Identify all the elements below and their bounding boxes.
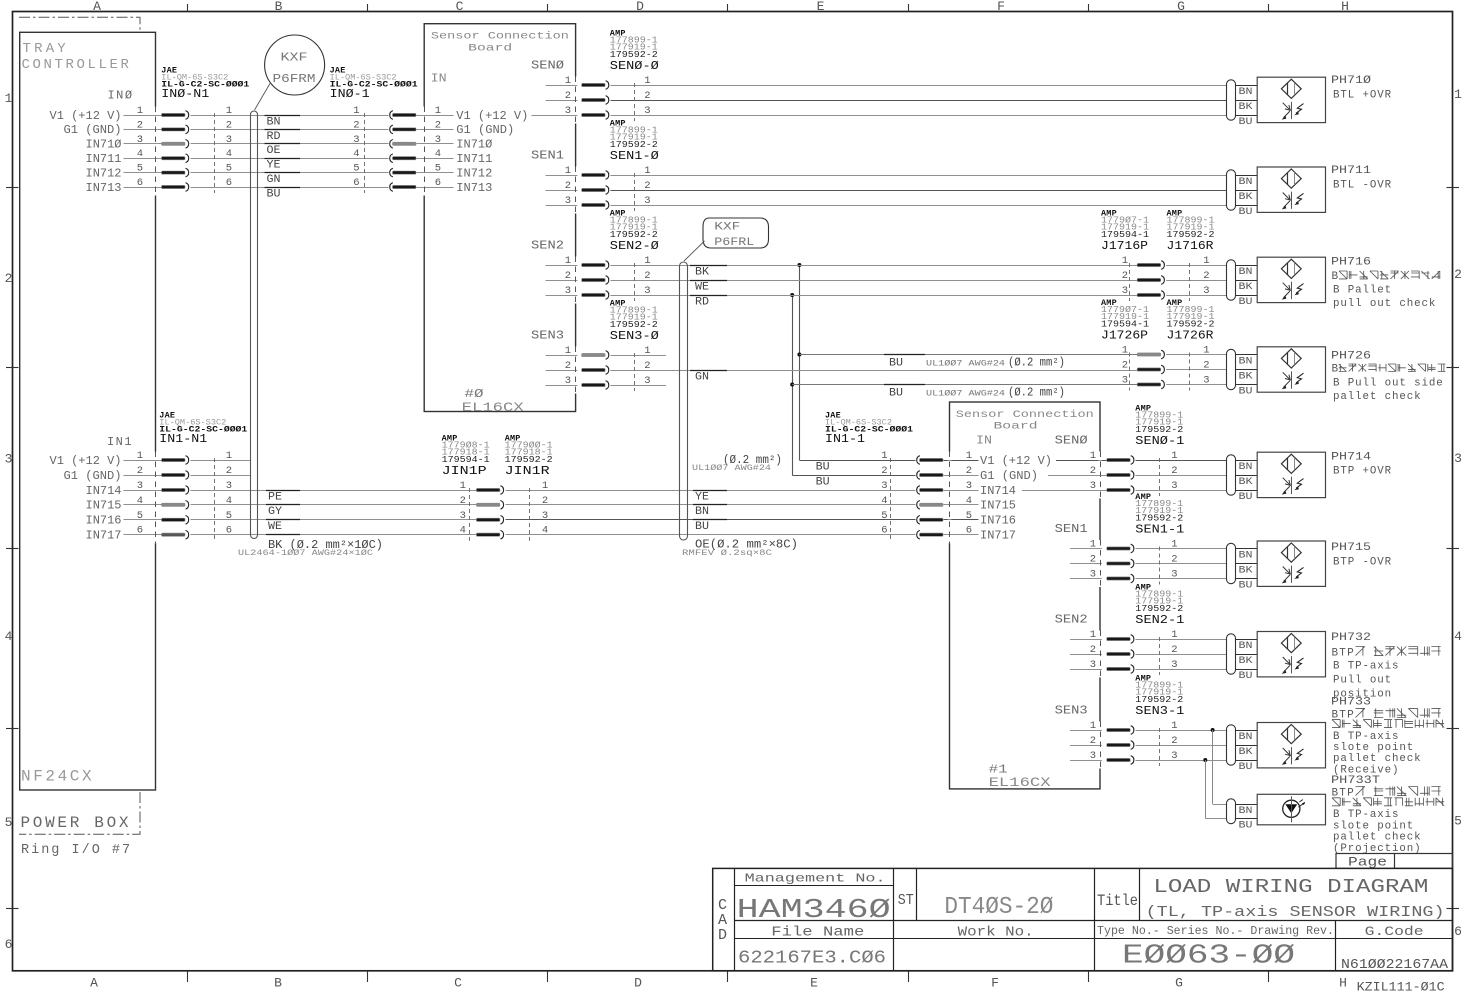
svg-text:BN: BN — [1239, 806, 1253, 817]
contact SEN2-1 pin 2 — [1070, 654, 1100, 656]
svg-text:3: 3 — [1090, 569, 1096, 581]
svg-text:BU: BU — [816, 461, 830, 473]
svg-text:DT4ØS-2Ø: DT4ØS-2Ø — [944, 894, 1053, 921]
svg-text:2: 2 — [1454, 267, 1462, 282]
wire color label YE — [265, 158, 301, 160]
svg-text:1: 1 — [1203, 345, 1209, 357]
svg-text:4: 4 — [460, 525, 466, 537]
svg-text:6: 6 — [137, 525, 143, 537]
svg-text:4: 4 — [137, 148, 143, 160]
svg-text:PH711: PH711 — [1331, 165, 1371, 177]
svg-text:1: 1 — [1090, 629, 1096, 641]
svg-text:D: D — [718, 927, 727, 944]
svg-text:D: D — [636, 0, 644, 14]
cable marker for PH732 — [1227, 634, 1236, 674]
svg-text:IN713: IN713 — [456, 181, 492, 195]
svg-text:4: 4 — [542, 525, 548, 537]
svg-text:1: 1 — [1171, 629, 1177, 641]
svg-text:SEN1-1: SEN1-1 — [1135, 523, 1184, 537]
svg-text:WE: WE — [695, 281, 709, 293]
wire BN into PH733T — [1236, 804, 1258, 806]
TRAY CONTROLLER box — [20, 32, 156, 790]
branch wires to PH733T — [1211, 728, 1215, 732]
svg-text:2: 2 — [644, 360, 650, 372]
svg-text:B TP-axis: B TP-axis — [1333, 661, 1399, 673]
svg-text:IN713: IN713 — [86, 181, 122, 195]
svg-text:BU: BU — [816, 476, 830, 488]
title block — [713, 868, 1453, 970]
svg-text:1: 1 — [1171, 539, 1177, 551]
svg-text:3: 3 — [1203, 285, 1209, 297]
svg-text:B: B — [1332, 647, 1339, 659]
wire BU into PH710 — [1236, 115, 1258, 117]
svg-text:SENØ: SENØ — [1055, 435, 1088, 448]
svg-text:OE: OE — [267, 145, 281, 157]
svg-text:3: 3 — [565, 105, 571, 117]
svg-text:3: 3 — [1090, 659, 1096, 671]
svg-text:2: 2 — [460, 495, 466, 507]
contact SEN1-1 pin 3 — [1070, 578, 1100, 580]
contact SEN1-1 pin 1 — [1070, 548, 1100, 550]
wire V1 inside SCB#0 — [424, 115, 453, 117]
svg-text:1: 1 — [644, 165, 650, 177]
svg-text:BK: BK — [1239, 102, 1253, 113]
svg-text:IN715: IN715 — [86, 499, 122, 513]
svg-text:G1 (GND): G1 (GND) — [980, 469, 1038, 483]
svg-text:V1 (+12 V): V1 (+12 V) — [456, 109, 528, 123]
svg-text:IN717: IN717 — [980, 529, 1016, 543]
svg-text:2: 2 — [542, 495, 548, 507]
cable wire color labels YE BN BU — [693, 490, 727, 492]
wire BK into PH733 — [1236, 745, 1258, 747]
Sensor Connection Board #1 box — [950, 402, 1101, 789]
svg-text:B TP-axis: B TP-axis — [1333, 731, 1399, 743]
wire BU into PH732 — [1236, 669, 1258, 671]
svg-text:PE: PE — [268, 491, 282, 503]
wire BN into PH732 — [1236, 639, 1258, 641]
svg-text:G1 (GND): G1 (GND) — [456, 123, 514, 137]
svg-text:B: B — [274, 976, 282, 991]
svg-text:E: E — [810, 976, 818, 991]
svg-text:1: 1 — [644, 345, 650, 357]
svg-text:2: 2 — [353, 119, 359, 131]
svg-text:2: 2 — [226, 119, 232, 131]
svg-text:6: 6 — [137, 177, 143, 189]
svg-text:PH726: PH726 — [1331, 351, 1371, 363]
svg-text:P6FRL: P6FRL — [714, 237, 754, 249]
svg-text:Work No.: Work No. — [958, 926, 1034, 941]
svg-text:6: 6 — [353, 177, 359, 189]
svg-text:1: 1 — [1171, 450, 1177, 462]
balloon KXF P6FRL — [703, 218, 769, 248]
svg-text:Sensor Connection: Sensor Connection — [956, 409, 1094, 421]
wire BK into PH726 — [1236, 369, 1258, 371]
svg-text:G1 (GND): G1 (GND) — [64, 469, 122, 483]
svg-text:2: 2 — [5, 271, 13, 286]
wire BN into PH714 — [1236, 460, 1258, 462]
svg-text:4: 4 — [881, 495, 887, 507]
svg-text:IN715: IN715 — [980, 499, 1016, 513]
svg-text:2: 2 — [565, 360, 571, 372]
contact SEN0-0 pin 1 — [546, 85, 576, 87]
svg-text:3: 3 — [644, 105, 650, 117]
svg-text:4: 4 — [5, 629, 13, 644]
balloon KXF P6FRM — [265, 35, 325, 95]
svg-text:C: C — [456, 0, 464, 14]
svg-text:slote point: slote point — [1333, 742, 1414, 754]
svg-text:3: 3 — [1090, 750, 1096, 762]
wire BU to J1726 pin3 — [792, 384, 1137, 386]
SEN2 cable wire color labels BK WE RD — [690, 265, 727, 267]
svg-text:2: 2 — [644, 180, 650, 192]
svg-text:1: 1 — [1454, 87, 1462, 102]
cable sheath KXF P6FRM — [251, 111, 258, 539]
svg-text:BU: BU — [695, 521, 709, 533]
svg-text:N61ØØ22167AA: N61ØØ22167AA — [1341, 957, 1449, 973]
cable label BK 0.2mm2 x10C — [266, 534, 300, 536]
svg-text:D: D — [634, 976, 642, 991]
contact SEN2-0 pin 1 — [546, 265, 576, 267]
svg-text:BU: BU — [889, 358, 903, 370]
svg-text:1: 1 — [644, 75, 650, 87]
contact SEN3-0 pin 3 — [546, 385, 576, 387]
svg-text:(Ø.2 mm²): (Ø.2 mm²) — [1008, 357, 1065, 370]
svg-text:BU: BU — [1239, 297, 1253, 308]
svg-text:A: A — [90, 976, 98, 991]
svg-text:BN: BN — [1239, 177, 1253, 188]
svg-text:3: 3 — [1122, 375, 1128, 387]
wire BU into PH733T — [1236, 818, 1258, 820]
svg-text:BK: BK — [1239, 192, 1253, 203]
svg-text:1: 1 — [137, 450, 143, 462]
wire BK into PH715 — [1236, 563, 1258, 565]
svg-text:H: H — [1339, 976, 1347, 991]
svg-text:GN: GN — [267, 174, 281, 186]
svg-text:6: 6 — [881, 525, 887, 537]
svg-text:B: B — [1332, 271, 1339, 283]
svg-text:YE: YE — [695, 491, 709, 503]
svg-text:UL1ØØ7 AWG#24: UL1ØØ7 AWG#24 — [692, 463, 771, 473]
svg-text:SEN2: SEN2 — [1055, 614, 1088, 627]
svg-text:BN: BN — [1239, 732, 1253, 743]
svg-text:GN: GN — [695, 371, 709, 383]
junction dots — [797, 263, 801, 267]
contact SEN3-0 pin 1 — [546, 355, 576, 357]
svg-text:B Pallet: B Pallet — [1333, 284, 1392, 296]
wire vertical BK branch — [799, 265, 801, 460]
svg-text:B TP-axis: B TP-axis — [1333, 809, 1399, 821]
svg-text:G.Code: G.Code — [1365, 924, 1424, 939]
svg-text:SEN1: SEN1 — [531, 150, 564, 163]
svg-text:NF24CX: NF24CX — [21, 768, 94, 786]
photo sensor PH732 — [1257, 632, 1325, 677]
svg-text:KXF: KXF — [281, 52, 308, 65]
photo sensor PH710 — [1257, 77, 1325, 122]
svg-text:4: 4 — [353, 148, 359, 160]
svg-text:EØØ63-ØØ: EØØ63-ØØ — [1122, 942, 1295, 972]
svg-text:V1 (+12 V): V1 (+12 V) — [50, 109, 122, 123]
svg-text:3: 3 — [1171, 659, 1177, 671]
row tick marks — [6, 187, 19, 189]
svg-text:6: 6 — [226, 177, 232, 189]
svg-text:1: 1 — [565, 75, 571, 87]
svg-text:BN: BN — [267, 116, 281, 128]
svg-text:2: 2 — [1171, 465, 1177, 477]
svg-text:3: 3 — [565, 195, 571, 207]
svg-text:1: 1 — [137, 105, 143, 117]
svg-text:5: 5 — [5, 815, 13, 830]
svg-text:6: 6 — [226, 525, 232, 537]
POWER BOX dash-dot outline — [19, 792, 140, 834]
svg-text:3: 3 — [1090, 480, 1096, 492]
svg-text:BU: BU — [1239, 671, 1253, 682]
contact SEN3-1 pin 1 — [1070, 730, 1100, 732]
svg-text:SEN3: SEN3 — [1055, 705, 1088, 718]
svg-text:BTL -OVR: BTL -OVR — [1333, 180, 1392, 192]
svg-text:BTP -OVR: BTP -OVR — [1333, 557, 1392, 569]
connector housing dashes JIN1 — [469, 488, 471, 541]
wire BU to J1726 pin1 — [799, 354, 1137, 356]
svg-text:G1 (GND): G1 (GND) — [64, 123, 122, 137]
svg-text:P6FRM: P6FRM — [273, 73, 316, 86]
svg-text:3: 3 — [226, 480, 232, 492]
svg-text:SEN3-Ø: SEN3-Ø — [610, 329, 659, 343]
svg-text:3: 3 — [1171, 480, 1177, 492]
svg-text:IN711: IN711 — [456, 152, 492, 166]
contact SEN2-1 pin 3 — [1070, 669, 1100, 671]
svg-text:IN1-1: IN1-1 — [825, 432, 865, 446]
svg-text:SENØ: SENØ — [531, 60, 564, 73]
svg-text:1: 1 — [565, 345, 571, 357]
svg-text:1: 1 — [226, 450, 232, 462]
svg-text:IN71Ø: IN71Ø — [456, 138, 492, 152]
cable wire color labels PE GY WE — [266, 490, 300, 492]
svg-text:LOAD WIRING DIAGRAM: LOAD WIRING DIAGRAM — [1153, 876, 1428, 898]
svg-text:1: 1 — [565, 165, 571, 177]
svg-text:5: 5 — [137, 163, 143, 175]
svg-text:2: 2 — [226, 465, 232, 477]
wire BN into PH716 — [1236, 265, 1258, 267]
svg-text:RD: RD — [695, 296, 709, 308]
svg-text:JIN1P: JIN1P — [442, 464, 487, 478]
svg-text:PH732: PH732 — [1331, 632, 1371, 644]
svg-text:IN711: IN711 — [86, 152, 122, 166]
svg-text:IN717: IN717 — [86, 529, 122, 543]
svg-text:3: 3 — [881, 480, 887, 492]
svg-text:IN716: IN716 — [980, 514, 1016, 528]
contact SEN1-0 pin 1 — [546, 175, 576, 177]
svg-text:1: 1 — [565, 255, 571, 267]
svg-text:INØ-N1: INØ-N1 — [161, 87, 209, 101]
contact SEN3-1 pin 2 — [1070, 745, 1100, 747]
svg-text:2: 2 — [137, 119, 143, 131]
svg-text:G: G — [1177, 0, 1185, 14]
svg-text:BN: BN — [1239, 267, 1253, 278]
svg-text:2: 2 — [1171, 735, 1177, 747]
svg-text:T: T — [1339, 647, 1346, 659]
svg-text:IN1-N1: IN1-N1 — [159, 432, 207, 446]
svg-text:5: 5 — [226, 510, 232, 522]
svg-text:BK: BK — [1239, 477, 1253, 488]
svg-text:UL2464-1ØØ7 AWG#24×1ØC: UL2464-1ØØ7 AWG#24×1ØC — [238, 548, 373, 558]
svg-text:(TL, TP-axis SENSOR WIRING): (TL, TP-axis SENSOR WIRING) — [1146, 905, 1445, 921]
svg-text:BK: BK — [1239, 747, 1253, 758]
svg-text:BN: BN — [1239, 357, 1253, 368]
svg-text:H: H — [1341, 0, 1349, 14]
svg-text:1: 1 — [542, 480, 548, 492]
cable marker for PH716 — [1227, 260, 1236, 300]
svg-text:Management No.: Management No. — [745, 872, 886, 886]
svg-text:3: 3 — [565, 375, 571, 387]
svg-text:1: 1 — [1171, 720, 1177, 732]
svg-text:POWER BOX: POWER BOX — [21, 814, 132, 832]
svg-text:BTL +OVR: BTL +OVR — [1333, 90, 1392, 102]
svg-text:4: 4 — [226, 495, 232, 507]
svg-text:6: 6 — [1454, 924, 1462, 939]
wire BK into PH716 — [1236, 280, 1258, 282]
svg-text:622167E3.CØ6: 622167E3.CØ6 — [738, 949, 886, 969]
svg-text:pull out check: pull out check — [1333, 298, 1436, 310]
svg-text:Board: Board — [994, 421, 1038, 433]
page number box — [1336, 854, 1453, 869]
svg-text:BU: BU — [1239, 762, 1253, 773]
svg-text:3: 3 — [1171, 569, 1177, 581]
photo sensor PH711 — [1257, 167, 1325, 212]
svg-text:SEN1: SEN1 — [1055, 523, 1088, 536]
connector housing dashes IN0 — [214, 113, 216, 193]
svg-text:ST: ST — [898, 892, 914, 909]
svg-text:IN714: IN714 — [980, 484, 1016, 498]
svg-text:1: 1 — [460, 480, 466, 492]
svg-text:1: 1 — [1090, 450, 1096, 462]
svg-text:KXF: KXF — [714, 222, 740, 234]
svg-text:2: 2 — [1122, 270, 1128, 282]
svg-text:J1726R: J1726R — [1167, 329, 1214, 343]
svg-text:2: 2 — [1090, 554, 1096, 566]
svg-text:BN: BN — [1239, 641, 1253, 652]
svg-text:INØ-1: INØ-1 — [330, 87, 370, 101]
connector housing dashes IN1-N1 — [214, 458, 216, 541]
svg-text:2: 2 — [1203, 360, 1209, 372]
svg-text:pallet check: pallet check — [1333, 391, 1422, 403]
svg-text:IN1: IN1 — [107, 435, 133, 449]
svg-text:3: 3 — [565, 285, 571, 297]
svg-text:4: 4 — [137, 495, 143, 507]
svg-text:BU: BU — [1239, 581, 1253, 592]
photo sensor PH726 — [1257, 347, 1325, 392]
svg-text:3: 3 — [644, 195, 650, 207]
svg-text:3: 3 — [353, 134, 359, 146]
svg-text:slote point: slote point — [1333, 820, 1414, 832]
svg-text:BU: BU — [1239, 117, 1253, 128]
svg-text:2: 2 — [1090, 644, 1096, 656]
wire BK into PH711 — [1236, 190, 1258, 192]
svg-text:BK: BK — [1239, 656, 1253, 667]
svg-text:3: 3 — [1454, 451, 1462, 466]
svg-text:2: 2 — [644, 90, 650, 102]
svg-text:3: 3 — [644, 285, 650, 297]
svg-text:V1 (+12 V): V1 (+12 V) — [50, 454, 122, 468]
svg-text:T: T — [1339, 787, 1346, 799]
svg-text:1: 1 — [1090, 720, 1096, 732]
svg-text:KZIL111-Ø1C: KZIL111-Ø1C — [1357, 980, 1445, 992]
svg-text:B: B — [275, 0, 283, 14]
svg-text:PH71Ø: PH71Ø — [1331, 75, 1372, 87]
svg-text:1: 1 — [644, 255, 650, 267]
svg-text:2: 2 — [1122, 360, 1128, 372]
contact SEN1-0 pin 3 — [546, 205, 576, 207]
svg-text:Board: Board — [468, 42, 512, 54]
svg-text:5: 5 — [881, 510, 887, 522]
svg-text:GY: GY — [268, 506, 282, 518]
svg-text:IN: IN — [431, 73, 447, 86]
svg-text:4: 4 — [226, 148, 232, 160]
svg-text:BTP +OVR: BTP +OVR — [1333, 466, 1392, 478]
tray controller dash-dot hood — [19, 17, 140, 32]
svg-text:BU: BU — [889, 388, 903, 400]
wire BN into PH711 — [1236, 175, 1258, 177]
photo sensor PH733T — [1257, 794, 1325, 825]
svg-text:1: 1 — [353, 105, 359, 117]
svg-text:PH714: PH714 — [1331, 452, 1371, 464]
svg-text:2: 2 — [565, 90, 571, 102]
cable marker for PH715 — [1227, 543, 1236, 583]
svg-text:INØ: INØ — [107, 88, 133, 102]
svg-text:pallet check: pallet check — [1333, 753, 1422, 765]
svg-text:SEN3: SEN3 — [531, 330, 564, 343]
svg-text:1: 1 — [1122, 255, 1128, 267]
wire BU into PH715 — [1236, 578, 1258, 580]
wire color label RD — [265, 129, 301, 131]
wire BU into PH733 — [1236, 760, 1258, 762]
svg-text:IN71Ø: IN71Ø — [86, 138, 122, 152]
svg-text:TRAY: TRAY — [23, 41, 69, 57]
svg-text:5: 5 — [1454, 814, 1462, 829]
photo sensor PH714 — [1257, 452, 1325, 497]
svg-text:BU: BU — [1239, 821, 1253, 832]
svg-text:P: P — [1347, 647, 1354, 659]
svg-text:SENØ-Ø: SENØ-Ø — [610, 59, 659, 73]
svg-text:2: 2 — [1171, 554, 1177, 566]
svg-text:IN712: IN712 — [456, 166, 492, 180]
svg-text:B: B — [1332, 364, 1339, 376]
svg-text:IN714: IN714 — [86, 484, 122, 498]
svg-text:SEN2-Ø: SEN2-Ø — [610, 239, 659, 253]
contact SEN2-1 pin 1 — [1070, 639, 1100, 641]
svg-text:3: 3 — [137, 134, 143, 146]
cable marker for PH714 — [1227, 455, 1236, 495]
svg-text:V1 (+12 V): V1 (+12 V) — [980, 454, 1052, 468]
svg-text:3: 3 — [1122, 285, 1128, 297]
svg-text:BK: BK — [1239, 282, 1253, 293]
svg-text:B Pull out side: B Pull out side — [1333, 377, 1444, 389]
wire BK into PH710 — [1236, 100, 1258, 102]
SEN3 wire label GN — [690, 370, 727, 372]
svg-text:T: T — [1339, 709, 1346, 721]
svg-text:2: 2 — [1090, 735, 1096, 747]
svg-text:5: 5 — [226, 163, 232, 175]
photo sensor PH715 — [1257, 541, 1325, 586]
svg-text:J1726P: J1726P — [1101, 329, 1148, 343]
svg-text:Type No.- Series No.- Drawing: Type No.- Series No.- Drawing Rev. — [1097, 925, 1334, 938]
svg-text:SEN2: SEN2 — [531, 240, 564, 253]
svg-text:3: 3 — [137, 480, 143, 492]
cable marker for PH710 — [1227, 80, 1236, 120]
photo sensor PH716 — [1257, 257, 1325, 302]
cable sheath KXF P6FRL — [680, 262, 688, 540]
svg-text:EL16CX: EL16CX — [462, 400, 524, 415]
svg-text:1: 1 — [1122, 345, 1128, 357]
